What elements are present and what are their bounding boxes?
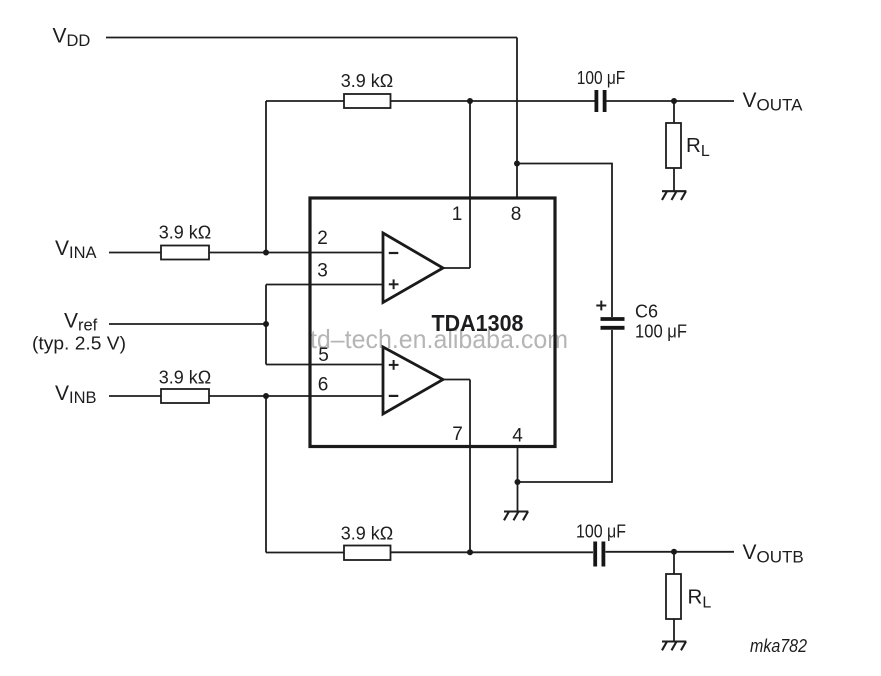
wire feedback A vertical	[265, 101, 267, 253]
wire top rail left	[266, 100, 344, 102]
wire bottom rail right	[391, 551, 594, 553]
node output B	[467, 549, 473, 555]
wire Vref bracket	[265, 285, 267, 365]
C6 polarity plus	[596, 301, 606, 311]
ground at RL B	[662, 642, 686, 651]
svg-text:3.9 kΩ: 3.9 kΩ	[341, 71, 393, 91]
wire Vref input	[109, 323, 266, 325]
wire C6 bottom branch	[518, 330, 613, 482]
wire pin 5	[266, 364, 383, 366]
wire VINA input	[109, 252, 161, 254]
node VOUTB / RL	[671, 549, 677, 555]
wire R3 to pin 6	[209, 395, 383, 397]
svg-text:3: 3	[317, 261, 328, 282]
resistor R1 3.9k series A	[161, 246, 209, 260]
wire op-amp B output	[443, 379, 470, 381]
resistor RL (B)	[666, 574, 681, 619]
capacitor 100uF output A	[596, 90, 604, 112]
wire bottom rail left	[266, 552, 344, 554]
IC U1 TDA1308 package outline	[310, 198, 555, 447]
op-amp B inverting mark	[389, 395, 399, 397]
svg-text:5: 5	[318, 345, 329, 366]
svg-text:7: 7	[452, 424, 463, 445]
op-amp B non-inverting mark	[389, 360, 399, 370]
node output A	[467, 98, 473, 104]
svg-text:100 μF: 100 μF	[576, 522, 626, 542]
svg-text:2: 2	[317, 228, 328, 249]
op-amp A	[383, 233, 443, 303]
wire RL-B top	[673, 552, 675, 574]
ground at pin 4	[504, 512, 528, 521]
wire VDD rail	[106, 37, 517, 39]
capacitor C6	[601, 319, 625, 328]
resistor R4 3.9k feedback B	[344, 546, 391, 561]
wire C6 top branch	[517, 164, 612, 318]
capacitor 100uF output B	[595, 542, 603, 567]
svg-text:C6: C6	[635, 302, 658, 322]
op-amp A inverting mark	[389, 252, 399, 254]
resistor RL (A)	[666, 123, 681, 168]
wire cap A to VOUTA	[607, 100, 735, 102]
svg-text:1: 1	[452, 204, 463, 225]
resistor R2 3.9k feedback A	[344, 94, 391, 108]
node pin 4 ground junction	[515, 479, 521, 485]
wire pin 1	[469, 101, 471, 268]
resistor R3 3.9k series B	[161, 389, 209, 403]
op-amp A non-inverting mark	[389, 279, 399, 289]
node B pin 6	[263, 393, 269, 399]
svg-text:8: 8	[511, 204, 522, 225]
svg-text:mka782: mka782	[750, 635, 808, 656]
ground at RL A	[662, 191, 686, 200]
svg-text:100 μF: 100 μF	[635, 322, 687, 342]
wire RL-A top	[673, 101, 675, 123]
op-amp B	[383, 347, 443, 414]
node Vref	[263, 321, 269, 327]
svg-text:100 μF: 100 μF	[577, 68, 626, 88]
svg-text:3.9 kΩ: 3.9 kΩ	[159, 368, 211, 388]
wire feedback B vertical	[265, 396, 267, 553]
svg-text:3.9 kΩ: 3.9 kΩ	[159, 223, 211, 243]
node VOUTA / RL	[671, 98, 677, 104]
wire VDD drop to pin 8	[516, 38, 518, 199]
wire top rail right	[391, 100, 595, 102]
wire pin 7	[469, 380, 471, 553]
svg-text:TDA1308: TDA1308	[432, 310, 524, 336]
node A pin 2	[263, 250, 269, 256]
svg-text:4: 4	[512, 426, 523, 447]
node VDD/C6 junction	[514, 161, 520, 167]
svg-text:(typ. 2.5 V): (typ. 2.5 V)	[32, 333, 126, 354]
wire pin 3	[266, 284, 383, 286]
wire pin 4	[517, 447, 519, 512]
wire cap B to VOUTB	[606, 551, 735, 553]
svg-text:6: 6	[318, 375, 329, 396]
wire op-amp A output	[443, 267, 470, 269]
wire RL-A bottom	[673, 168, 675, 191]
svg-text:3.9 kΩ: 3.9 kΩ	[341, 524, 393, 544]
wire VINB input	[109, 395, 161, 397]
wire R1 to pin 2	[209, 252, 383, 254]
wire RL-B bottom	[673, 619, 675, 642]
